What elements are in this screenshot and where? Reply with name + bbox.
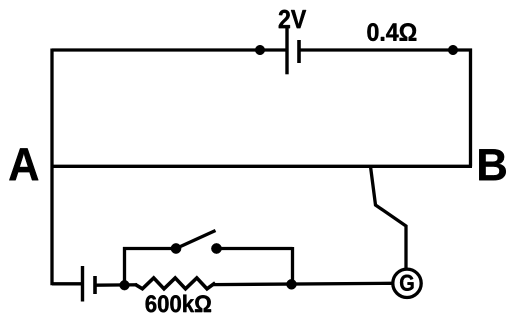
switch S1 right contact dot bbox=[211, 243, 221, 253]
label 2V for battery V1 bbox=[279, 10, 306, 28]
switch S1 blade (open) bbox=[176, 231, 216, 249]
wire vertical up to switch branch bbox=[123, 247, 126, 285]
wire switch branch right bbox=[217, 247, 293, 250]
junction dot left of battery V1 bbox=[255, 45, 265, 55]
galvanometer G circle bbox=[393, 269, 421, 297]
wire left vertical segment bbox=[50, 49, 53, 286]
wire right vertical segment bbox=[469, 49, 472, 167]
jockey wire from AB wire to galvanometer bbox=[371, 167, 407, 269]
battery V1 short plate (negative) bbox=[297, 40, 301, 63]
wire switch branch right vertical down bbox=[291, 247, 294, 285]
junction dot top-right bbox=[448, 45, 458, 55]
wire top-left horizontal segment bbox=[52, 48, 286, 51]
battery V2 long plate bbox=[81, 266, 84, 302]
switch S1 left contact dot bbox=[171, 243, 181, 253]
label 600k ohm for resistor R1 bbox=[146, 295, 211, 313]
wire from battery V2 to junction bbox=[95, 283, 137, 287]
battery V1 long plate (positive) bbox=[285, 27, 288, 74]
label 0.4 ohm internal resistance bbox=[367, 23, 416, 41]
wire bottom horizontal to galvanometer bbox=[213, 283, 392, 284]
wire bottom-left horizontal to battery V2 bbox=[52, 282, 81, 285]
junction dot bottom-right bbox=[287, 279, 297, 289]
wire top-right horizontal segment bbox=[299, 48, 472, 51]
battery V2 short plate bbox=[93, 276, 97, 294]
junction dot bottom-left bbox=[120, 280, 130, 290]
wire AB potentiometer horizontal bbox=[52, 165, 472, 168]
wire switch branch left bbox=[123, 247, 176, 250]
label G inside galvanometer bbox=[400, 275, 413, 291]
node A label bbox=[9, 148, 38, 180]
resistor R1 zigzag bbox=[135, 278, 215, 289]
node B label bbox=[479, 149, 506, 180]
